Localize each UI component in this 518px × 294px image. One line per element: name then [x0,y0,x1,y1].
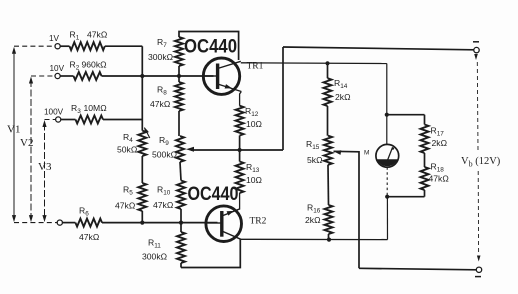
wire [327,63,329,78]
svg-text:47kΩ: 47kΩ [150,99,171,109]
svg-text:960kΩ: 960kΩ [82,60,108,70]
resistor R16 [325,205,333,234]
wire [60,75,73,77]
wire [61,119,76,121]
node V2 dimension line [30,80,32,219]
resistor R17 [421,125,429,154]
wire TR1 emitter to R12 [240,92,242,106]
svg-text:47kΩ: 47kΩ [79,232,100,242]
resistor R18 [421,167,429,190]
wire meter bottom dotted [386,167,388,197]
resistor R6 [75,219,102,227]
wiper arrow R9 [186,147,194,152]
meter M [376,144,399,167]
wire dashed 10V connector [31,75,55,77]
wire dashed 100V connector [45,119,56,121]
wire R18 bottom to meter branch [387,196,424,198]
svg-text:2kΩ: 2kΩ [432,138,448,148]
wire TR1 base line [102,75,214,77]
wire [180,263,182,268]
svg-text:2kΩ: 2kΩ [305,215,321,225]
wire [386,197,388,240]
wire [424,115,426,125]
junction [385,113,389,117]
resistor R15 preset [324,136,332,165]
resistor R2 [74,72,102,80]
junction [179,221,183,225]
wire [141,211,143,223]
wire dashed common connector [14,222,57,224]
svg-text:1V: 1V [49,34,60,43]
junction [140,74,144,78]
svg-text:47kΩ: 47kΩ [429,174,450,184]
svg-text:10Ω: 10Ω [246,175,263,185]
svg-text:300kΩ: 300kΩ [142,252,168,262]
terminal 100V input [56,117,61,122]
wire [178,111,180,136]
terminal 10V input [55,73,60,78]
transistor TR2 [206,206,242,242]
wire TR2 collector rail [241,238,388,240]
svg-text:500kΩ: 500kΩ [152,150,178,160]
wire [62,222,75,224]
wire TR2 base line [102,222,218,224]
resistor R10 [177,181,185,210]
wire [180,162,181,181]
svg-text:47kΩ: 47kΩ [153,200,174,210]
label terminal mark [473,41,479,43]
svg-text:5kΩ: 5kΩ [307,155,323,165]
svg-text:47kΩ: 47kΩ [87,30,108,40]
resistor R5 [138,183,146,211]
wire [424,153,426,167]
wire [239,136,241,151]
junction [325,61,329,65]
svg-text:300kΩ: 300kΩ [148,52,174,62]
wire [178,66,180,82]
wire [239,150,241,162]
wire TR2 emitter to R13 [239,193,241,209]
svg-text:Vb (12V): Vb (12V) [461,156,501,169]
resistor R3 [76,116,104,124]
wire dashed 1V connector [14,45,55,47]
wire [141,46,143,130]
wire [180,209,182,223]
resistor R7 [175,37,183,66]
wire [141,156,143,183]
resistor R12 [236,106,244,136]
svg-text:V2: V2 [20,137,33,149]
wire collector bracket TR1 [179,32,239,61]
terminal battery positive [474,47,479,52]
resistor R4 preset [138,131,146,156]
wire TR2 to bottom-left rail [181,239,240,267]
wire meter branch top [386,64,388,145]
wire rail to top [282,47,284,150]
wire battery dashed [476,62,479,150]
svg-text:100V: 100V [44,108,64,117]
svg-text:OC440: OC440 [184,36,237,58]
svg-text:V3: V3 [38,161,52,173]
terminal 1V input [55,44,60,49]
terminal battery negative [476,267,481,272]
wire bottom rail [359,268,476,270]
wire TR1 collector [241,62,387,65]
svg-text:50kΩ: 50kΩ [117,145,138,155]
wire [103,119,142,121]
wire [327,106,329,136]
resistor R8 [175,82,183,111]
resistor R13 [236,162,244,194]
arrow battery bottom [477,256,481,262]
resistor R9 preset [176,136,184,162]
terminal common input [57,220,62,225]
svg-text:47kΩ: 47kΩ [115,201,136,211]
svg-text:V1: V1 [7,124,20,136]
wire [328,234,330,240]
svg-text:10MΩ: 10MΩ [84,103,108,113]
svg-text:10Ω: 10Ω [246,119,263,129]
wire [60,45,69,47]
junction [327,238,331,242]
wire top rail [283,47,474,50]
wiper arrow R15 [334,150,342,155]
junction [177,74,181,78]
wire [327,165,330,205]
svg-text:2kΩ: 2kΩ [335,92,351,102]
resistor R14 [324,78,332,106]
svg-text:TR2: TR2 [250,217,267,227]
svg-text:M: M [364,150,369,157]
wire emitter rail [191,149,283,151]
wire [424,190,426,197]
node V1 dimension line [13,50,15,218]
junction [140,221,144,225]
wire R15 wiper [334,151,360,268]
wire to R17 [387,114,425,116]
junction [238,148,242,152]
label terminal mark [475,276,481,278]
wire [105,45,143,47]
transistor TR1 [203,58,239,94]
svg-text:OC440: OC440 [188,183,239,205]
junction [385,195,389,199]
resistor R11 [177,232,185,263]
node V3 dimension line [44,124,46,219]
wire [180,223,182,232]
arrow battery top [474,54,478,60]
svg-text:10V: 10V [50,64,65,73]
resistor R1 [70,42,105,50]
